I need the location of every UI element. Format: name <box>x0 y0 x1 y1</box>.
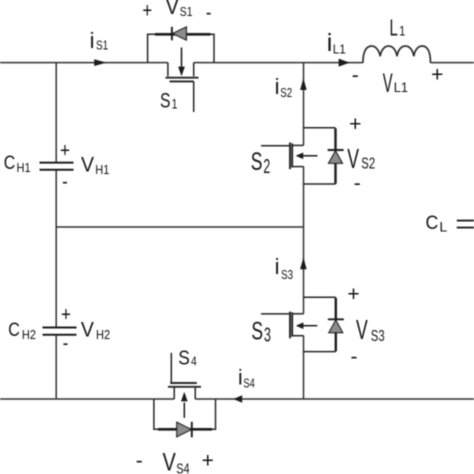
label - VL1 + <box>352 63 444 98</box>
transistor S3 gate arrow <box>296 322 318 329</box>
label + VS1 - <box>142 0 211 25</box>
label iL1 <box>327 29 346 57</box>
svg-text:S: S <box>178 346 190 368</box>
svg-text:+: + <box>349 113 361 136</box>
wire center branch lower segment <box>303 335 305 399</box>
svg-text:i: i <box>327 29 333 57</box>
svg-text:+: + <box>61 303 71 326</box>
label iS1 <box>90 28 109 53</box>
current arrow iS1 <box>94 59 106 66</box>
svg-text:S4: S4 <box>243 377 254 391</box>
wire left rail upper (top rail to CH1) <box>55 63 57 163</box>
svg-text:4: 4 <box>191 354 197 368</box>
label + VH2 - <box>61 303 110 354</box>
wire center branch middle segment <box>303 166 305 313</box>
svg-text:V: V <box>81 154 94 177</box>
svg-text:V: V <box>347 143 359 174</box>
svg-text:C: C <box>8 319 20 341</box>
body diode D4 of S4 <box>177 422 192 438</box>
svg-text:+: + <box>431 63 443 86</box>
svg-text:+: + <box>347 283 359 306</box>
svg-text:C: C <box>4 152 16 174</box>
svg-text:L1: L1 <box>333 42 346 57</box>
label S1 <box>160 88 178 112</box>
svg-text:H1: H1 <box>95 162 109 177</box>
wire left rail middle (CH1 to CH2) <box>55 170 57 327</box>
svg-text:i: i <box>275 254 280 279</box>
body diode loop of S1 <box>148 34 214 62</box>
label + VS2 - <box>347 113 375 195</box>
body diode loop of S4 <box>154 399 216 429</box>
transistor S2 gate arrow <box>296 153 318 160</box>
svg-text:H1: H1 <box>17 160 31 175</box>
wire top rail left segment <box>0 62 168 64</box>
svg-text:C: C <box>426 211 439 233</box>
svg-text:V: V <box>356 314 368 345</box>
current arrow iL1 <box>339 59 350 67</box>
transistor S4 body structure <box>168 353 201 399</box>
svg-text:-: - <box>354 172 361 195</box>
svg-text:-: - <box>136 450 143 473</box>
label + VH1 - <box>60 139 110 193</box>
svg-text:-: - <box>352 64 359 87</box>
svg-text:S4: S4 <box>176 460 189 474</box>
label S2 <box>251 147 270 178</box>
svg-text:1: 1 <box>172 96 178 112</box>
svg-text:+: + <box>60 139 70 162</box>
label CL <box>426 211 448 234</box>
transistor S1 body structure <box>166 63 199 112</box>
label S3 <box>251 316 270 346</box>
svg-text:V: V <box>81 319 94 342</box>
svg-text:-: - <box>351 345 358 368</box>
svg-text:S2: S2 <box>280 87 292 101</box>
label + VS3 - <box>347 283 384 368</box>
svg-text:2: 2 <box>263 155 270 178</box>
svg-text:+: + <box>142 0 152 23</box>
wire middle rail <box>56 226 303 228</box>
label L1 <box>390 15 406 41</box>
label iS2 <box>275 74 293 101</box>
label S4 <box>178 346 197 369</box>
inductor L1 <box>363 46 430 63</box>
current arrow iS4 <box>233 395 242 402</box>
wire bottom rail right segment <box>195 398 474 400</box>
transistor S2 body structure <box>261 128 336 184</box>
body diode D2 of S2 <box>328 128 344 184</box>
svg-text:3: 3 <box>264 323 271 346</box>
svg-text:V: V <box>166 0 179 19</box>
current arrow iS2 <box>300 78 307 90</box>
label - VS4 + <box>136 448 214 474</box>
svg-text:i: i <box>238 367 243 390</box>
label iS4 <box>238 367 255 391</box>
svg-text:+: + <box>202 450 214 473</box>
label CH2 <box>8 319 36 342</box>
wire left rail lower (CH2 to bottom rail) <box>55 335 57 399</box>
svg-text:S1: S1 <box>180 5 193 19</box>
wire top rail after inductor <box>430 62 474 64</box>
svg-text:S: S <box>251 316 263 345</box>
svg-text:1: 1 <box>399 23 405 38</box>
svg-text:H2: H2 <box>22 327 36 342</box>
svg-text:-: - <box>62 170 68 193</box>
svg-text:S: S <box>160 88 171 112</box>
label iS3 <box>275 254 293 282</box>
transistor S4 channel arrow <box>181 392 188 418</box>
svg-text:V: V <box>383 67 393 98</box>
transistor S3 body structure <box>261 297 336 351</box>
current arrow iS3 <box>300 257 307 269</box>
wire center branch upper segment <box>303 63 305 146</box>
body diode D3 of S3 <box>328 298 344 352</box>
svg-text:-: - <box>206 2 212 25</box>
capacitor CH2 <box>43 328 77 335</box>
transistor S1 channel arrow <box>178 48 185 77</box>
svg-text:S2: S2 <box>361 155 375 172</box>
svg-text:V: V <box>163 448 176 474</box>
wire top rail right segment <box>194 62 363 64</box>
capacitor CL <box>457 221 474 228</box>
svg-text:i: i <box>90 28 95 53</box>
svg-text:S3: S3 <box>371 327 385 344</box>
svg-text:L: L <box>439 219 447 235</box>
capacitor CH1 <box>40 163 74 170</box>
svg-text:H2: H2 <box>96 327 110 342</box>
svg-text:L: L <box>390 15 398 41</box>
body diode D1 of S1 <box>172 27 187 41</box>
svg-text:-: - <box>63 331 69 354</box>
svg-text:S1: S1 <box>96 40 108 53</box>
label CH1 <box>4 152 31 176</box>
svg-text:S: S <box>251 147 263 176</box>
svg-text:i: i <box>275 74 280 99</box>
svg-text:L1: L1 <box>394 80 408 95</box>
svg-text:S3: S3 <box>281 269 293 283</box>
wire bottom rail left segment <box>0 398 174 400</box>
